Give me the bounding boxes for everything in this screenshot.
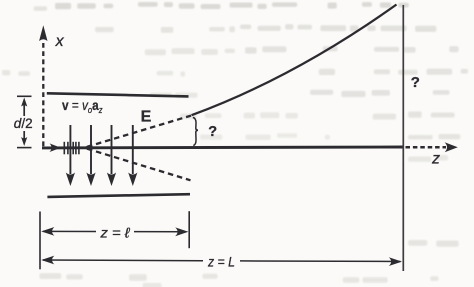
lower dashed cone line	[87, 149, 191, 181]
velocity arrowhead on z axis	[50, 143, 61, 152]
d/2 bottom tick	[17, 147, 32, 149]
svg-text:z: z	[431, 151, 440, 168]
electron trajectory curve	[192, 5, 397, 116]
deflection brace	[193, 117, 198, 145]
left dimension tick	[39, 212, 41, 270]
z axis dashed extension	[406, 146, 447, 149]
svg-text:z = ℓ: z = ℓ	[99, 225, 130, 241]
d/2 top tick	[17, 95, 32, 97]
svg-text:x: x	[55, 33, 65, 50]
screen vertical line	[402, 5, 404, 271]
apex arrowhead pointing left at cone vertex	[83, 145, 91, 151]
E field arrow 3	[107, 125, 116, 186]
d/2 up arrow	[21, 98, 27, 117]
bottom deflection plate	[47, 194, 190, 197]
z = l dimension arrow	[41, 227, 188, 236]
svg-text:v = voaz: v = voaz	[62, 97, 103, 115]
x axis arrowhead	[39, 25, 47, 41]
z axis line	[42, 146, 403, 150]
right dimension tick at plate end	[188, 211, 190, 248]
svg-text:z = L: z = L	[207, 253, 235, 269]
svg-text:E: E	[141, 109, 152, 126]
top deflection plate	[47, 93, 189, 96]
svg-text:?: ?	[208, 124, 217, 140]
E field arrow 4	[128, 125, 137, 186]
z = L dimension arrow	[41, 256, 402, 266]
upper dashed cone line	[87, 116, 191, 147]
svg-text:d/2: d/2	[14, 116, 33, 131]
E field arrow 2	[86, 125, 95, 186]
d/2 down arrow	[21, 131, 27, 146]
charge bunch tick marks	[64, 142, 79, 155]
svg-text:?: ?	[411, 74, 420, 91]
x axis dashed line	[42, 40, 44, 146]
E field arrow 1	[66, 125, 75, 186]
z axis arrowhead	[445, 142, 458, 152]
